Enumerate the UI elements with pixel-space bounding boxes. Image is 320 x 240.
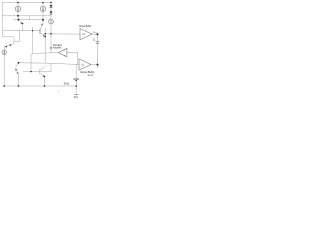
wire collector riser x=45.5 xyxy=(44,29,46,63)
op-amp output buffer2 triangle xyxy=(79,59,91,70)
junction I3 / QL collector xyxy=(18,62,20,64)
junction bottom rail / Qbot leg xyxy=(44,85,46,87)
transistor Qmid emitter xyxy=(40,33,45,36)
junction Qbot emitter xyxy=(44,76,46,78)
junction resistor tap xyxy=(76,80,77,81)
wire right column xyxy=(97,34,99,64)
transistor QB emitter diagonal xyxy=(40,20,43,30)
terminal bar bottom xyxy=(74,93,78,95)
wire amp input xyxy=(67,52,78,64)
current source I2 circle xyxy=(40,6,45,11)
junction Qmid emitter xyxy=(44,36,46,38)
svg-text:Amplifier: Amplifier xyxy=(53,45,61,49)
wire A xyxy=(3,30,40,32)
transistor QL diagonals xyxy=(16,63,19,86)
wire x51 mid xyxy=(50,34,52,53)
transistor QA emitter diagonal xyxy=(19,20,23,31)
wire CS3 column xyxy=(3,47,5,86)
junction top rail / I2 xyxy=(42,2,44,4)
wire x51 lower xyxy=(50,63,52,71)
transistor Qmid bar xyxy=(39,29,41,33)
diode D1 xyxy=(50,5,53,7)
junction diode chain / node A xyxy=(50,33,52,35)
wire buffer2 output xyxy=(91,64,98,66)
junction Qbot base xyxy=(30,71,32,73)
transistor QA emitter arrowhead xyxy=(21,22,23,24)
wire x31 riser xyxy=(30,53,32,71)
node VOUT: buffer2 output xyxy=(97,64,99,66)
wire left border xyxy=(2,3,4,37)
svg-text:CL: CL xyxy=(93,39,96,41)
transistor Qmid emitter arrowhead xyxy=(43,35,45,37)
wire bottom rail xyxy=(4,85,76,87)
junction base bus / Q2 emitter xyxy=(42,19,44,21)
junction top rail / diode chain xyxy=(50,2,52,4)
wire Q1b emitter xyxy=(14,31,20,42)
transistor QB emitter arrowhead xyxy=(42,24,43,26)
op-amp main error amplifier triangle xyxy=(58,48,67,57)
wire diode chain xyxy=(50,3,52,34)
current source I1 circle xyxy=(15,6,20,11)
junction Q1 emitter leg xyxy=(22,23,24,25)
junction top rail / I1 xyxy=(17,2,19,4)
svg-text:30 kΩ: 30 kΩ xyxy=(64,81,70,85)
transistor Qbot emitter arrowhead xyxy=(43,75,45,77)
wire to buffer1 xyxy=(45,33,80,35)
wire amp output xyxy=(33,52,59,55)
junction QL emitter xyxy=(15,69,16,70)
junction left branch b xyxy=(10,44,12,46)
capacitor C1 plates xyxy=(96,41,99,43)
node A: bandgap output to buffer1 xyxy=(44,33,46,35)
circle device on diode chain xyxy=(49,19,54,24)
wire rail2 step xyxy=(29,16,31,20)
wire resistor chain xyxy=(75,65,77,95)
node VO: buffer1 output xyxy=(97,33,99,35)
wire output stub xyxy=(97,65,99,68)
wire rail2 xyxy=(3,15,52,17)
wire top rail xyxy=(3,2,52,4)
junction x51 column xyxy=(50,47,51,48)
svg-text:x1: x1 xyxy=(82,63,85,66)
svg-text:VS-: VS- xyxy=(74,95,80,99)
junction left branch a xyxy=(6,46,8,48)
wire jog curve xyxy=(3,37,15,44)
wire x32.5 riser xyxy=(32,27,34,53)
junction rail2 / I1 output xyxy=(17,15,19,17)
wire long mid xyxy=(19,63,80,65)
junction bottom rail / QL leg xyxy=(18,85,20,87)
junction bottom rail left xyxy=(3,85,5,87)
wire buffer1 output xyxy=(92,33,98,35)
svg-text:Output Buffer: Output Buffer xyxy=(79,24,91,28)
wire base bus xyxy=(13,19,43,21)
svg-text:-: - xyxy=(64,49,65,52)
transistor Qbot bar xyxy=(39,69,41,74)
current source I3 circle xyxy=(2,50,6,54)
diode D2 xyxy=(50,11,53,13)
wire CS2 stem xyxy=(42,3,44,20)
junction wire A / riser xyxy=(32,30,33,31)
svg-text:x1: x1 xyxy=(82,33,85,36)
junction bottom rail / resistor chain xyxy=(75,85,77,87)
transistor QL emitter arrowhead xyxy=(17,72,19,74)
svg-text:30 kΩ: 30 kΩ xyxy=(73,77,79,81)
op-amp output buffer1 triangle xyxy=(80,29,92,40)
transistor Qbot collector xyxy=(40,67,45,71)
svg-text:2: 2 xyxy=(58,90,60,94)
junction base bus / Q1 emitter xyxy=(18,19,20,21)
wire CS1 stem xyxy=(17,3,19,20)
transistor Qbot emitter xyxy=(40,73,45,86)
wire base of Qbot xyxy=(23,71,51,73)
wire diagonal to CS3 xyxy=(5,44,15,47)
current source arrows xyxy=(4,7,51,53)
